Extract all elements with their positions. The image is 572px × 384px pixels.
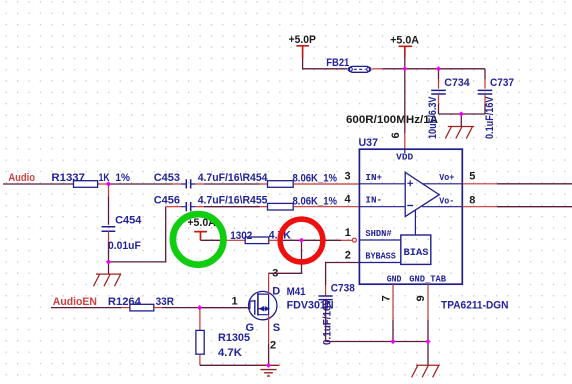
wire source stub (red) xyxy=(268,315,270,344)
wire C454 to node B xyxy=(108,231,110,242)
internal line SHDN xyxy=(359,239,400,241)
junction node B xyxy=(106,259,111,264)
internal line IN- xyxy=(359,206,405,208)
wire +5.0A to R1302 xyxy=(201,239,222,241)
resistor R455 xyxy=(268,195,338,210)
annotation red circle xyxy=(280,219,323,262)
svg-text:4.7K: 4.7K xyxy=(218,347,242,359)
pin 1 open circle xyxy=(352,238,356,242)
wire node D to gate xyxy=(200,307,248,309)
svg-text:4.7uF/16\R454: 4.7uF/16\R454 xyxy=(198,172,269,184)
svg-text:0.1uF/16V: 0.1uF/16V xyxy=(484,96,496,139)
svg-text:IN+: IN+ xyxy=(365,173,382,183)
wire R1264 to node D xyxy=(154,307,162,309)
wire gnd rail xyxy=(326,341,428,343)
wire R1305 bottom xyxy=(199,354,201,365)
svg-text:C453: C453 xyxy=(154,172,180,184)
svg-text:M41: M41 xyxy=(287,286,306,298)
wire C456 to R455 xyxy=(196,206,204,208)
op-amp triangle xyxy=(405,172,439,216)
wire pin 5 stub xyxy=(462,183,497,185)
svg-text:600R/100MHz/1A: 600R/100MHz/1A xyxy=(346,114,438,126)
svg-text:7: 7 xyxy=(381,295,393,301)
capacitor C456 xyxy=(154,195,268,212)
svg-text:8: 8 xyxy=(469,194,475,206)
wire AudioEN to R1264 xyxy=(51,307,122,309)
resistor R1264 xyxy=(108,296,174,311)
capacitor C453 xyxy=(154,172,269,189)
capacitor C734 xyxy=(427,77,471,139)
svg-text:9: 9 xyxy=(415,295,427,301)
capacitor C737 xyxy=(478,77,514,139)
ground below U37 xyxy=(412,365,440,377)
svg-text:1302: 1302 xyxy=(230,230,252,242)
svg-text:C737: C737 xyxy=(490,77,514,89)
svg-text:10uF/6.3V: 10uF/6.3V xyxy=(427,96,439,139)
wire +5.0A drop to rail xyxy=(404,57,406,69)
junction pin9 gnd rail xyxy=(425,339,430,344)
gate lead xyxy=(248,301,255,309)
channel bar xyxy=(257,293,259,316)
wire Vo+ out xyxy=(497,183,572,185)
wire source to ground node xyxy=(268,344,270,365)
junction node A xyxy=(106,181,111,186)
wire Vo- out xyxy=(497,206,572,208)
svg-text:C734: C734 xyxy=(444,77,470,89)
svg-text:+5.0A: +5.0A xyxy=(390,35,419,47)
svg-text:G: G xyxy=(246,322,255,334)
power symbol +5.0P xyxy=(289,34,316,58)
wire node C to SHDN pin xyxy=(302,239,342,241)
svg-text:6: 6 xyxy=(390,132,402,138)
svg-text:0.01uF: 0.01uF xyxy=(108,240,141,252)
wire pin 3 stub (red) xyxy=(293,183,359,185)
wire ground stub xyxy=(460,114,462,127)
wire Audio net to R1337 xyxy=(3,183,74,185)
wire C737 top xyxy=(484,69,486,79)
capacitor C738 xyxy=(319,282,355,345)
wire VDD drop xyxy=(404,69,406,134)
wire C734 bottom xyxy=(438,94,440,104)
wire op-amp to BIAS xyxy=(414,209,416,235)
wire bottom rail C734-C737 xyxy=(439,113,486,115)
svg-text:R1305: R1305 xyxy=(218,332,250,344)
resistor R454 xyxy=(268,173,338,188)
svg-text:GND: GND xyxy=(387,275,402,285)
svg-text:Vo-: Vo- xyxy=(439,197,454,207)
wire pin 4 stub (red) xyxy=(293,206,359,208)
junction node C (SHDN/drain) xyxy=(299,238,304,243)
internal line BYBASS xyxy=(359,262,400,264)
svg-text:C454: C454 xyxy=(115,215,142,227)
svg-text:1%: 1% xyxy=(115,172,130,184)
wire pin 2 to C738 xyxy=(326,263,360,286)
junction +5.0A rail xyxy=(402,66,407,71)
body arrow tail xyxy=(265,306,270,311)
wire R1305 to source node xyxy=(200,364,269,366)
svg-text:VDD: VDD xyxy=(396,153,414,163)
svg-text:2: 2 xyxy=(345,250,351,262)
junction source/ground xyxy=(266,363,271,368)
svg-text:5: 5 xyxy=(469,171,475,183)
svg-text:C456: C456 xyxy=(154,195,180,207)
svg-text:D: D xyxy=(272,285,280,297)
wire R1302 to node C xyxy=(269,239,283,241)
svg-text:TPA6211-DGN: TPA6211-DGN xyxy=(441,299,509,311)
svg-text:C738: C738 xyxy=(331,282,355,294)
capacitor C454 xyxy=(102,215,143,253)
svg-text:R1264: R1264 xyxy=(108,296,142,308)
wire pin 9 xyxy=(427,284,429,320)
ground below source (bar style) xyxy=(258,365,280,376)
wire node B to C456 row xyxy=(109,207,166,262)
resistor R1305 xyxy=(196,330,250,358)
annotation green circle xyxy=(173,214,224,265)
svg-text:1: 1 xyxy=(345,227,351,239)
svg-text:BIAS: BIAS xyxy=(404,248,429,259)
wire C738 bottom to gnd rail xyxy=(325,300,327,342)
svg-text:S: S xyxy=(273,322,280,334)
svg-text:1: 1 xyxy=(232,296,238,308)
wire FB21 to +5.0A rail xyxy=(372,68,383,70)
internal line Vo+ xyxy=(422,183,462,185)
svg-text:FB21: FB21 xyxy=(326,57,349,69)
svg-text:4: 4 xyxy=(345,193,352,205)
wire C734 top xyxy=(438,69,440,79)
body arrow xyxy=(259,306,265,312)
internal line IN+ xyxy=(359,183,405,185)
wire pin 7 xyxy=(392,284,394,320)
internal line Vo- xyxy=(422,206,462,208)
wire node D down to R1305 xyxy=(199,308,201,310)
wire gnd rail to ground xyxy=(427,342,429,366)
ground below C454 xyxy=(94,274,122,286)
resistor R1302 xyxy=(230,230,291,244)
resistor R1337 xyxy=(51,172,130,187)
svg-text:8.06K_1%: 8.06K_1% xyxy=(293,195,338,207)
svg-text:U37: U37 xyxy=(359,137,379,149)
power symbol +5.0A (shutdown branch) xyxy=(187,217,215,240)
svg-text:33R: 33R xyxy=(156,296,174,308)
transistor M41 FDV301N xyxy=(246,285,334,334)
svg-text:SHDN#: SHDN# xyxy=(365,229,392,239)
junction node D (AudioEN/R1305) xyxy=(197,305,202,310)
drain/source stubs xyxy=(258,294,269,315)
svg-text:4.7uF/16\R455: 4.7uF/16\R455 xyxy=(198,195,268,207)
junction C734/C737 gnd xyxy=(459,111,464,116)
power symbol +5.0A xyxy=(390,35,419,57)
svg-text:+5.0P: +5.0P xyxy=(289,34,316,46)
svg-text:3: 3 xyxy=(345,171,351,183)
junction pin7 gnd rail xyxy=(390,339,395,344)
svg-text:R1337: R1337 xyxy=(51,172,85,184)
wire +5.0P to FB21 xyxy=(303,58,348,69)
wire R1337 to C453 xyxy=(98,183,106,185)
wire C453 to R454 xyxy=(196,183,204,185)
wire drain stub (red) xyxy=(268,273,270,294)
wire pin 8 stub xyxy=(462,206,497,208)
ground below C734/C737 xyxy=(445,127,474,139)
svg-text:Audio: Audio xyxy=(8,172,35,184)
op-amp U37 xyxy=(359,137,463,285)
gate bar xyxy=(254,300,256,315)
svg-text:GND_TAB: GND_TAB xyxy=(409,275,446,285)
ferrite bead FB21 xyxy=(326,57,371,72)
svg-text:8.06K_1%: 8.06K_1% xyxy=(293,173,338,185)
svg-text:FDV301N: FDV301N xyxy=(287,299,334,311)
BIAS block xyxy=(401,235,431,264)
svg-text:BYBASS: BYBASS xyxy=(365,251,396,261)
wire node B ground stub xyxy=(108,262,110,274)
svg-text:Vo+: Vo+ xyxy=(439,173,454,183)
svg-text:2: 2 xyxy=(270,340,276,352)
wire node A down to C454 xyxy=(108,184,110,197)
junction C734 rail xyxy=(436,66,441,71)
svg-text:IN-: IN- xyxy=(365,196,382,206)
wire C737 bottom xyxy=(484,94,486,104)
svg-text:AudioEN: AudioEN xyxy=(53,296,97,308)
wire node C down to drain xyxy=(269,240,302,273)
